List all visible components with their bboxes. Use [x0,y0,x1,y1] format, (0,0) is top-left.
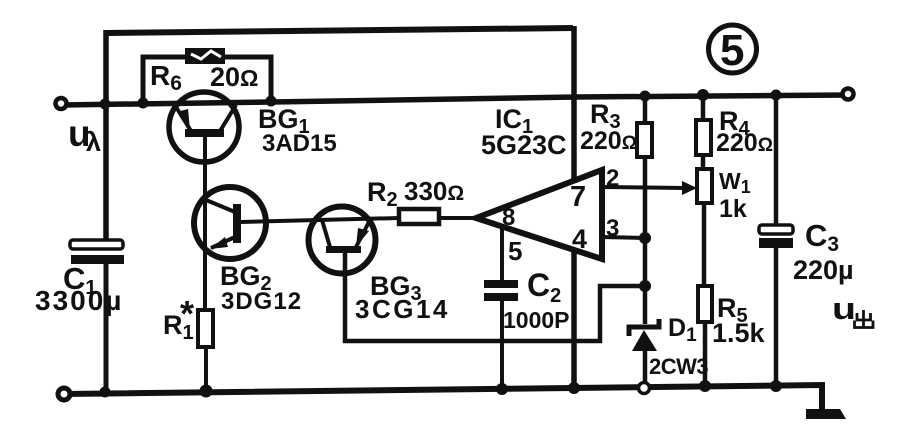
svg-text:1000P: 1000P [503,307,570,333]
resistor R6 [185,48,225,64]
zener diode D1 [629,319,659,351]
capacitor C2 [484,280,518,301]
label W1 [719,168,751,197]
label C2 [527,267,561,307]
label BG3 [370,271,422,305]
wire ground rail [64,385,822,411]
svg-text:5G23C: 5G23C [481,130,567,160]
wire D1 to ground rail [643,351,648,384]
svg-text:4: 4 [572,224,587,254]
node junction R3 top [640,91,651,102]
label R5 value 1.5k [712,318,766,348]
resistor R1 [198,310,213,347]
node junction C2 bottom [496,383,508,395]
node junction pin3 / zener [639,232,651,244]
svg-text:3300µ: 3300µ [35,285,123,316]
ground terminal bottom-left [58,388,70,400]
wire pin7 supply (top rail down) [571,26,577,183]
node junction C3 top [771,90,782,101]
wire pin4 to ground rail [571,251,577,390]
output terminal [843,89,854,100]
label R3 value 220ohm [580,127,637,155]
wire left vertical (input node down to C1) [103,30,109,241]
wire pin2 to W1 wiper [602,181,697,195]
resistor R3 [637,123,652,157]
svg-text:220µ: 220µ [793,255,854,285]
node junction pin4 bottom [568,382,580,394]
label C1 value 3300u [35,285,123,316]
label C1 [63,261,97,299]
potentiometer W1 [697,169,712,203]
pin 7 [570,181,586,213]
svg-text:3DG12: 3DG12 [221,288,302,315]
wire R6 bypass loop [143,57,271,103]
label IC1 type 5G23C [481,130,567,160]
node junction R5 bottom [699,380,711,392]
wire R4/W1/R5 branch vertical [703,95,705,388]
node junction BG3 loop / zener line [639,280,651,292]
capacitor C1 [70,240,124,264]
node junction C3 bottom [770,380,782,392]
label BG2 type 3DG12 [221,288,302,315]
label BG2 [220,261,272,295]
svg-text:3CG14: 3CG14 [355,294,450,324]
wire pin3 to reference node [602,237,645,238]
input terminal [56,98,67,109]
label R3 [590,99,621,133]
node D1 ground terminal (open) [639,383,650,394]
svg-text:5: 5 [508,236,522,266]
pin 5 [508,236,522,266]
wire BG1 base to R1 [203,137,207,311]
svg-text:2CW3: 2CW3 [649,354,708,379]
pin 3 [606,215,619,242]
svg-text:λ: λ [86,127,101,157]
label R2 [367,177,398,211]
op-amp IC1 [476,170,602,259]
pin 8 [502,204,515,231]
wire C1 bottom to ground rail [104,264,109,394]
wire C3 branch vertical [774,95,779,387]
pin 2 [606,165,619,192]
wire BG3 base loop to zener node [345,253,645,341]
node junction R4 top [697,89,709,101]
wire C2 to ground rail [500,301,504,390]
node junction R1 bottom [200,385,213,398]
label R6 value 20ohm [210,62,259,92]
label D1 [668,314,697,346]
label D1 type 2CW3 [649,354,708,379]
label BG3 type 3CG14 [355,294,450,324]
label BG1 [258,104,310,138]
resistor R5 [698,286,712,322]
label R4 [719,106,751,140]
node junction C1 bottom [100,387,111,398]
svg-text:1.5k: 1.5k [712,318,766,348]
node junction R6 right [266,96,277,107]
resistor R4 [696,120,711,155]
node junction input [100,99,111,110]
wire R1 to ground rail [204,347,208,393]
svg-text:*: * [180,293,194,334]
label R2 value 330ohm [404,176,464,206]
label BG1 type 3AD15 [262,130,337,157]
svg-text:3AD15: 3AD15 [262,130,337,157]
pin 4 [572,224,587,254]
wire R2 to op-amp tip [439,216,478,220]
transistor BG3 [309,207,376,274]
svg-text:20Ω: 20Ω [210,62,259,92]
resistor R2 [399,209,439,224]
transistor BG1 [169,92,239,162]
wire R3 branch vertical [643,95,648,324]
svg-text:1k: 1k [719,195,747,223]
label u-out [832,291,873,328]
label C3 [805,218,839,256]
node junction R6 left [138,98,149,109]
label R1 [163,293,194,344]
label u-in [68,113,101,157]
wire top rail [106,28,573,33]
wire main horizontal rail (input to output) [62,95,849,105]
svg-text:u: u [832,291,856,326]
ground symbol [806,409,846,419]
label R4 value 220ohm [716,129,773,157]
transistor BG2 [194,187,266,259]
wire BG2 base to op-amp input [241,218,399,222]
label W1 value 1k [719,195,747,223]
circled figure number 5 [709,25,757,75]
label C3 value 220u [793,255,854,285]
svg-text:5: 5 [720,26,744,75]
capacitor C3 [759,225,793,248]
label C2 value 1000P [503,307,570,333]
svg-text:8: 8 [502,204,515,231]
wire pin5 to C2 [500,227,504,281]
label R6 [150,60,182,95]
label IC1 [495,104,533,138]
label R5 [717,293,748,327]
svg-text:7: 7 [570,181,586,213]
